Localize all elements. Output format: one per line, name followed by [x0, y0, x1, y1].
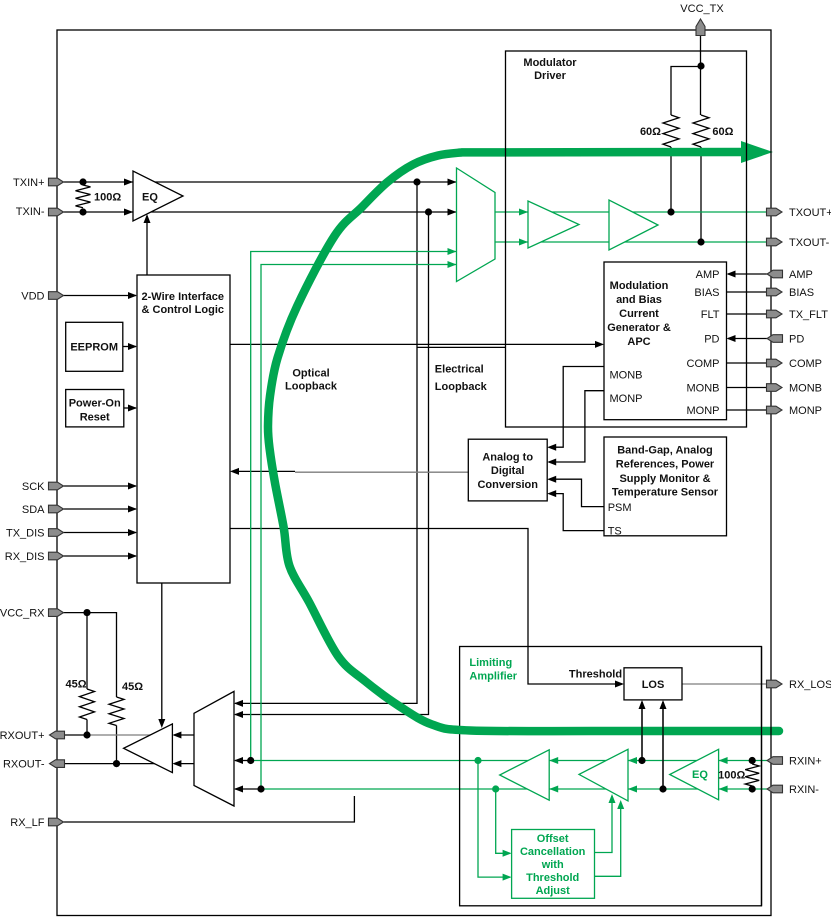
block offset cancellation with threshold adjust — [512, 830, 595, 899]
wire APC block to TX_FLT pin — [727, 313, 768, 315]
wire RXOUT+ from pin to output driver gray — [87, 734, 152, 736]
junction electrical loopback TXIN+ — [413, 178, 420, 185]
wire optical loopback thick green arrow — [268, 152, 779, 731]
block 2-wire interface and control logic — [137, 275, 230, 583]
wire TX_DIS to 2-wire box — [64, 532, 137, 534]
svg-text:TXOUT+: TXOUT+ — [789, 207, 831, 219]
svg-text:Reset: Reset — [80, 412, 110, 424]
svg-text:Conversion: Conversion — [477, 479, 538, 491]
svg-text:TXIN+: TXIN+ — [13, 177, 44, 189]
arrowhead PSM into ADC — [547, 476, 556, 483]
arrowhead EEPROM into 2-wire — [128, 343, 137, 350]
svg-text:RXOUT+: RXOUT+ — [0, 730, 45, 742]
wire optical loopback upper into RX mux black segment — [235, 760, 251, 762]
svg-text:FLT: FLT — [701, 309, 720, 321]
arrowhead VDD into 2-wire — [128, 292, 137, 299]
wire RX mux to driver lower — [174, 763, 194, 765]
wire VCC_RX branch to left 45ohm resistor — [86, 613, 88, 689]
arrowhead RX mux output lower into driver — [172, 760, 181, 767]
wire ADC to 2-wire box gray segment — [295, 471, 468, 473]
arrowhead optical loopback lower into RX mux — [234, 786, 243, 793]
wire EEPROM to 2-wire box — [123, 346, 136, 348]
wire VDD to 2-wire box — [64, 295, 137, 297]
wire SCK to 2-wire box — [64, 485, 137, 487]
svg-text:Digital: Digital — [491, 465, 525, 477]
arrowhead TXIN+ into TX mux — [448, 179, 457, 186]
arrowhead EQ control up — [144, 214, 151, 223]
junction VCC_TX branch — [697, 62, 704, 69]
pin MONB — [767, 384, 783, 392]
wire RXOUT+ from pin black segment — [65, 734, 88, 736]
block modulation and bias current generator APC — [604, 262, 727, 420]
arrowhead RXIN+ into RX EQ — [719, 757, 728, 764]
svg-text:AMP: AMP — [696, 269, 720, 281]
resistor 100ohm TXIN termination — [76, 185, 91, 208]
op-amp EQ TX input equalizer — [133, 171, 183, 221]
wire optical loopback lower green vertical — [261, 265, 457, 790]
resistor 60ohm right — [693, 115, 709, 147]
arrowhead TXIN- into EQ — [124, 209, 133, 216]
pin VCC_RX — [49, 609, 64, 617]
svg-text:Loopback: Loopback — [285, 381, 338, 393]
svg-text:COMP: COMP — [687, 358, 720, 370]
svg-text:Supply Monitor &: Supply Monitor & — [619, 473, 710, 485]
wire APC block to COMP pin — [727, 362, 768, 364]
arrowhead SCK into 2-wire — [128, 483, 137, 490]
mux RX output selector — [194, 691, 234, 806]
arrowhead POR into 2-wire — [128, 405, 137, 412]
svg-text:PD: PD — [704, 334, 719, 346]
svg-text:Adjust: Adjust — [536, 885, 571, 897]
wire RXIN- line through limiting amp chain — [261, 788, 767, 790]
arrowhead MONP into ADC — [547, 459, 556, 466]
svg-text:MONB: MONB — [789, 383, 822, 395]
junction optical loopback RXIN+ — [247, 757, 254, 764]
svg-text:Loopback: Loopback — [435, 381, 488, 393]
pin RXIN- — [767, 785, 783, 793]
wire RX mux to driver upper — [174, 734, 194, 736]
arrowhead electrical loopback upper into RX mux — [234, 700, 243, 707]
svg-text:RXIN-: RXIN- — [789, 784, 819, 796]
wire LOS tap on RXIN+ line — [641, 702, 643, 761]
svg-text:EQ: EQ — [692, 769, 708, 781]
wire band-gap TS output to ADC — [549, 494, 604, 531]
wire band-gap PSM output to ADC — [549, 479, 604, 506]
arrowhead optical loopback lower into TX mux — [448, 261, 457, 268]
arrowhead optical loopback upper into TX mux — [448, 248, 457, 255]
junction 60ohm right TXOUT- — [697, 238, 704, 245]
svg-text:Electrical: Electrical — [435, 364, 484, 376]
pin TXOUT- — [767, 238, 783, 246]
wire EQ control from 2-wire box — [146, 216, 148, 275]
pin RX_DIS — [49, 552, 64, 560]
pin TXIN+ — [49, 178, 64, 186]
wire electrical loopback tap from TXIN- down — [235, 212, 429, 715]
arrowhead TX_DIS into 2-wire — [128, 529, 137, 536]
op-amp TX driver stage 2 — [609, 200, 658, 250]
svg-text:BIAS: BIAS — [694, 287, 719, 299]
arrowhead MONB into ADC — [547, 444, 556, 451]
pin MONP — [767, 406, 783, 414]
pin RXOUT+ — [50, 731, 65, 739]
svg-text:Limiting: Limiting — [469, 657, 512, 669]
wire electrical loopback tap from TXIN+ down — [235, 182, 417, 703]
resistor 45ohm right — [109, 697, 124, 726]
arrowhead TXIN+ into EQ — [124, 179, 133, 186]
svg-text:PSM: PSM — [608, 502, 632, 514]
box limiting amplifier right edge overlay — [761, 647, 763, 906]
wire offset cancellation output upper — [595, 796, 613, 853]
junction LOS tap RXIN- — [659, 785, 666, 792]
resistor 45ohm left — [80, 689, 95, 720]
svg-text:TX_FLT: TX_FLT — [789, 309, 828, 321]
arrowhead AMP into APC — [727, 271, 736, 278]
svg-text:BIAS: BIAS — [789, 287, 814, 299]
arrowhead TXIN- into TX mux — [448, 209, 457, 216]
svg-text:RXOUT-: RXOUT- — [3, 759, 45, 771]
svg-text:LOS: LOS — [642, 679, 665, 691]
wire VCC_TX supply vertical — [700, 35, 702, 115]
arrowhead RXIN+ into RX amp1 — [549, 757, 558, 764]
junction 100ohm RXIN+ — [749, 757, 756, 764]
arrowhead TS into ADC — [547, 490, 556, 497]
wire optical loopback lower into RX mux black segment — [235, 788, 261, 790]
svg-text:References, Power: References, Power — [616, 458, 715, 470]
wire Power-On Reset to 2-wire box — [124, 407, 136, 409]
svg-text:& Control Logic: & Control Logic — [142, 304, 225, 316]
wire APC MONB output to ADC — [549, 367, 604, 448]
pin RXIN+ — [767, 757, 783, 765]
wire RXIN+ line through limiting amp chain — [251, 760, 767, 762]
arrowhead optical loopback upper into RX mux — [234, 757, 243, 764]
arrowhead control into APC — [595, 341, 604, 348]
wire APC block to BIAS pin — [727, 291, 768, 293]
wire AMP pin to APC block — [728, 273, 767, 275]
arrowhead RXIN+ into RX amp2 — [628, 757, 637, 764]
arrowhead PD into APC — [727, 335, 736, 342]
arrowhead TX mux output lower into amp1 — [519, 239, 528, 246]
svg-text:EEPROM: EEPROM — [70, 342, 118, 354]
wire offset cancellation feed upper — [478, 761, 510, 878]
resistor 60ohm left — [663, 115, 679, 147]
junction 100ohm RXIN- — [749, 785, 756, 792]
svg-text:Temperature Sensor: Temperature Sensor — [612, 486, 719, 498]
junction TXIN+ resistor — [79, 178, 86, 185]
op-amp RX output driver — [124, 724, 173, 773]
arrowhead TX mux output upper into amp1 — [519, 209, 528, 216]
wire TXIN+ input line to TX mux — [64, 181, 457, 183]
wire APC MONP output to ADC — [549, 391, 604, 462]
svg-text:Modulation: Modulation — [610, 280, 669, 292]
op-amp RX limiting amp stage 1 — [500, 750, 550, 800]
svg-text:EQ: EQ — [142, 192, 158, 204]
svg-text:TX_DIS: TX_DIS — [6, 528, 45, 540]
svg-text:Driver: Driver — [534, 70, 567, 82]
svg-text:COMP: COMP — [789, 358, 822, 370]
junction optical loopback RXIN- — [257, 785, 264, 792]
wire 2-wire box to LOS threshold — [230, 529, 622, 685]
wire TX mux output upper to TXOUT+ — [495, 211, 767, 213]
svg-text:Modulator: Modulator — [523, 57, 577, 69]
svg-text:RXIN+: RXIN+ — [789, 756, 822, 768]
pin VCC_TX — [696, 19, 705, 36]
wire 2-wire box to APC block — [230, 343, 602, 345]
svg-text:Generator &: Generator & — [607, 322, 671, 334]
svg-text:Optical: Optical — [292, 368, 329, 380]
pin RX_LF — [49, 818, 64, 826]
box modulator driver — [506, 51, 747, 427]
wire VCC_TX branch to left 60ohm resistor — [671, 67, 701, 116]
pin TX_DIS — [49, 529, 64, 537]
wire offset cancellation output lower — [595, 802, 621, 876]
wire LOS tap on RXIN- line — [662, 702, 664, 789]
arrowhead offset output lower up — [617, 800, 624, 809]
svg-text:MONP: MONP — [610, 393, 643, 405]
pin TXOUT+ — [767, 208, 783, 216]
wire LOS tap RXIN- overlay over loopback band — [662, 702, 664, 789]
pin RXOUT- — [50, 760, 65, 768]
svg-text:and Bias: and Bias — [616, 294, 662, 306]
wire LOS tap RXIN+ overlay over loopback band — [641, 702, 643, 761]
mux TX input selector — [457, 168, 496, 282]
arrowhead threshold into LOS — [615, 681, 624, 688]
pin TX_FLT — [767, 310, 783, 318]
svg-text:RX_LF: RX_LF — [10, 817, 45, 829]
wire stub to modulator driver box — [417, 346, 506, 348]
wire RXOUT- from pin to output driver — [65, 763, 157, 765]
arrowhead RX mux output upper into driver — [172, 732, 181, 739]
pin RX_LOS — [767, 680, 783, 688]
svg-text:SCK: SCK — [22, 481, 45, 493]
svg-text:Band-Gap, Analog: Band-Gap, Analog — [617, 444, 713, 456]
arrowhead RXIN- into RX EQ — [719, 786, 728, 793]
op-amp TX driver stage 1 — [528, 201, 579, 248]
svg-text:2-Wire Interface: 2-Wire Interface — [142, 291, 224, 303]
arrowhead offset feed lower into box — [503, 850, 512, 857]
arrowhead 2-wire control into RX driver down — [158, 719, 165, 728]
wire optical loopback upper green vertical — [251, 252, 457, 761]
wire right 60ohm resistor to TXOUT- line — [700, 147, 702, 242]
svg-text:APC: APC — [627, 336, 650, 348]
wire 2-wire box to RX output driver — [161, 583, 163, 726]
svg-text:Current: Current — [619, 308, 659, 320]
wire TXIN- input line to TX mux — [64, 211, 457, 213]
svg-text:MONB: MONB — [687, 383, 720, 395]
junction LOS tap RXIN+ — [638, 757, 645, 764]
svg-text:SDA: SDA — [22, 504, 45, 516]
arrowhead offset feed upper into box — [503, 874, 512, 881]
svg-text:PD: PD — [789, 334, 804, 346]
junction 45ohm RXOUT- — [113, 760, 120, 767]
block EEPROM — [66, 322, 123, 371]
arrowhead RXIN- into RX amp1 — [549, 786, 558, 793]
svg-text:100Ω: 100Ω — [94, 192, 121, 204]
op-amp RX limiting amp stage 2 — [579, 749, 628, 801]
resistor 100ohm RXIN termination — [745, 764, 759, 786]
wire RX_DIS to 2-wire box — [64, 555, 137, 557]
junction VCC_RX branch — [83, 609, 90, 616]
svg-text:VCC_TX: VCC_TX — [680, 3, 724, 15]
arrowhead LOS tap RXIN- up — [660, 700, 667, 709]
pin COMP — [767, 359, 783, 367]
block analog to digital conversion — [468, 439, 547, 501]
svg-text:MONP: MONP — [687, 405, 720, 417]
arrowhead offset output upper up — [609, 794, 616, 803]
svg-text:Cancellation: Cancellation — [520, 846, 586, 858]
svg-text:TS: TS — [608, 526, 622, 538]
wire SDA to 2-wire box — [64, 508, 137, 510]
svg-text:Analog to: Analog to — [482, 451, 533, 463]
svg-text:TXOUT-: TXOUT- — [789, 237, 830, 249]
junction offset cancellation lower — [492, 785, 499, 792]
arrowhead RX_DIS into 2-wire — [128, 553, 137, 560]
pin SDA — [49, 505, 64, 513]
wire left 60ohm resistor to TXOUT+ line — [670, 147, 672, 212]
arrowhead LOS tap RXIN+ up — [639, 700, 646, 709]
svg-text:RX_DIS: RX_DIS — [5, 551, 45, 563]
junction TXIN- resistor — [79, 208, 86, 215]
arrowhead RXIN- into RX amp2 — [628, 786, 637, 793]
svg-text:60Ω: 60Ω — [640, 126, 661, 138]
pin PD — [767, 335, 783, 343]
op-amp RX EQ input equalizer — [670, 749, 719, 800]
svg-text:MONB: MONB — [610, 369, 643, 381]
svg-text:45Ω: 45Ω — [66, 679, 87, 691]
box limiting amplifier — [460, 647, 762, 906]
junction electrical loopback TXIN- — [425, 208, 432, 215]
pin AMP — [767, 270, 783, 278]
svg-text:with: with — [541, 859, 564, 871]
wire VCC_RX to 45ohm resistors — [64, 613, 117, 697]
wire APC block to MONP pin — [727, 409, 768, 411]
arrowhead optical loopback thick green — [741, 141, 773, 163]
wire RX_LF from pin — [64, 796, 355, 822]
svg-text:MONP: MONP — [789, 405, 822, 417]
svg-text:100Ω: 100Ω — [718, 769, 745, 781]
wire APC block to MONB pin — [727, 387, 768, 389]
wire right 45ohm resistor to RXOUT- line — [116, 726, 118, 764]
svg-text:Power-On: Power-On — [69, 398, 121, 410]
svg-text:Offset: Offset — [537, 833, 569, 845]
wire LOS to RX_LOS pin gray — [682, 683, 767, 685]
svg-text:VDD: VDD — [21, 291, 44, 303]
svg-text:VCC_RX: VCC_RX — [0, 608, 45, 620]
wire TX mux output lower to TXOUT- — [495, 241, 767, 243]
wire offset cancellation feed lower — [496, 789, 510, 853]
svg-text:RX_LOS: RX_LOS — [789, 679, 831, 691]
arrowhead electrical loopback lower into RX mux — [234, 711, 243, 718]
pin VDD — [49, 292, 64, 300]
wire PD pin to APC block — [728, 338, 767, 340]
wire left 45ohm resistor to RXOUT+ line — [86, 720, 88, 736]
junction 60ohm left TXOUT+ — [667, 208, 674, 215]
svg-text:45Ω: 45Ω — [122, 681, 143, 693]
block power-on reset — [66, 390, 124, 427]
pin TXIN- — [49, 208, 64, 216]
svg-text:AMP: AMP — [789, 269, 813, 281]
pin BIAS — [767, 288, 783, 296]
arrowhead ADC line into 2-wire — [230, 468, 239, 475]
svg-text:Amplifier: Amplifier — [469, 671, 517, 683]
wire ADC to 2-wire box black segment — [232, 470, 295, 472]
svg-text:60Ω: 60Ω — [712, 126, 733, 138]
svg-text:Threshold: Threshold — [569, 669, 622, 681]
svg-text:Threshold: Threshold — [526, 872, 579, 884]
svg-text:TXIN-: TXIN- — [16, 206, 45, 218]
block band-gap analog references power supply monitor temperature sensor — [604, 437, 727, 538]
arrowhead SDA into 2-wire — [128, 506, 137, 513]
junction offset cancellation upper — [474, 757, 481, 764]
pin SCK — [49, 482, 64, 490]
junction 45ohm RXOUT+ — [83, 731, 90, 738]
block LOS — [624, 668, 682, 700]
